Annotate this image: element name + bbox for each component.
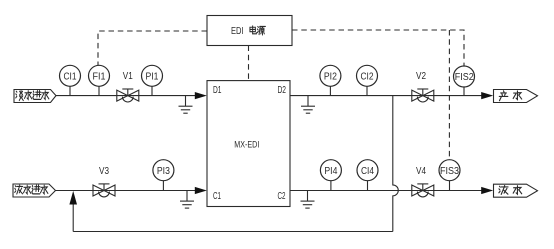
- flow arrow to concentrate flag: [481, 187, 493, 194]
- svg-text:PI1: PI1: [146, 71, 159, 82]
- MX-EDI module box: [207, 81, 290, 207]
- dashed control line: power to FI1: [98, 31, 207, 65]
- svg-text:CI4: CI4: [361, 166, 374, 177]
- instrument PI3: [153, 160, 174, 191]
- ground: product line: [301, 96, 315, 114]
- wire: recirculation down with hop over C2 line: [393, 96, 399, 232]
- wire: concentrate feed line bottom: [56, 190, 196, 192]
- dashed control line: power to module: [248, 46, 250, 81]
- svg-text:CI2: CI2: [361, 71, 374, 82]
- svg-text:C2: C2: [278, 191, 286, 202]
- wire: recirculation riser to concentrate feed: [72, 203, 74, 232]
- svg-text:MX-EDI: MX-EDI: [234, 139, 259, 150]
- wire: recirculation bottom return: [73, 231, 393, 233]
- svg-text:V2: V2: [416, 71, 426, 82]
- ground: concentrate feed: [180, 191, 194, 209]
- svg-text:FIS2: FIS2: [455, 72, 474, 83]
- instrument FI1: [89, 65, 110, 95]
- dashed control line: power to FIS2: [292, 30, 464, 66]
- svg-text:C1: C1: [213, 191, 221, 202]
- flag: concentrate water 浓水: [494, 184, 538, 197]
- svg-text:V3: V3: [99, 166, 109, 177]
- instrument PI1: [142, 65, 163, 95]
- instrument FIS2: [454, 66, 475, 96]
- EDI power supply label: [231, 26, 265, 37]
- svg-text:D2: D2: [278, 85, 287, 96]
- ground: dilute feed: [179, 96, 193, 114]
- EDI power supply box U1: [207, 16, 292, 46]
- instrument CI1: [60, 65, 81, 95]
- wire: product line D2 out: [290, 95, 482, 97]
- instrument PI2: [320, 65, 341, 95]
- wire: concentrate out line C2: [290, 190, 482, 192]
- instrument CI4: [357, 160, 378, 191]
- valve V4: [412, 166, 434, 197]
- svg-text:PI4: PI4: [324, 166, 337, 177]
- svg-text:V1: V1: [123, 71, 133, 82]
- instrument FIS3: [439, 160, 460, 191]
- flow arrow into C1: [195, 187, 207, 194]
- svg-text:PI2: PI2: [324, 71, 337, 82]
- flag: fresh water inlet 淡水进水: [14, 90, 56, 103]
- svg-text:PI3: PI3: [157, 166, 170, 177]
- dashed control line: power branch to FIS3: [448, 30, 450, 160]
- wire: dilute feed line top: [56, 95, 195, 97]
- valve V1: [117, 71, 139, 102]
- svg-text:FIS3: FIS3: [440, 166, 459, 177]
- svg-text:EDI: EDI: [231, 26, 244, 37]
- flow arrow recirculation joining concentrate feed: [69, 191, 77, 205]
- instrument PI4: [320, 160, 341, 191]
- svg-text:FI1: FI1: [93, 71, 106, 82]
- svg-text:D1: D1: [213, 85, 222, 96]
- flow arrow into D1: [195, 92, 207, 99]
- valve V3: [93, 166, 115, 197]
- ground: concentrate out: [301, 191, 315, 209]
- instrument CI2: [357, 65, 378, 95]
- svg-text:V4: V4: [416, 166, 426, 177]
- valve V2: [412, 71, 434, 102]
- flag: concentrate inlet 浓水进水: [13, 184, 56, 197]
- flag: product water 产水: [494, 90, 538, 103]
- flow arrow to product flag: [481, 92, 493, 99]
- svg-text:CI1: CI1: [64, 71, 77, 82]
